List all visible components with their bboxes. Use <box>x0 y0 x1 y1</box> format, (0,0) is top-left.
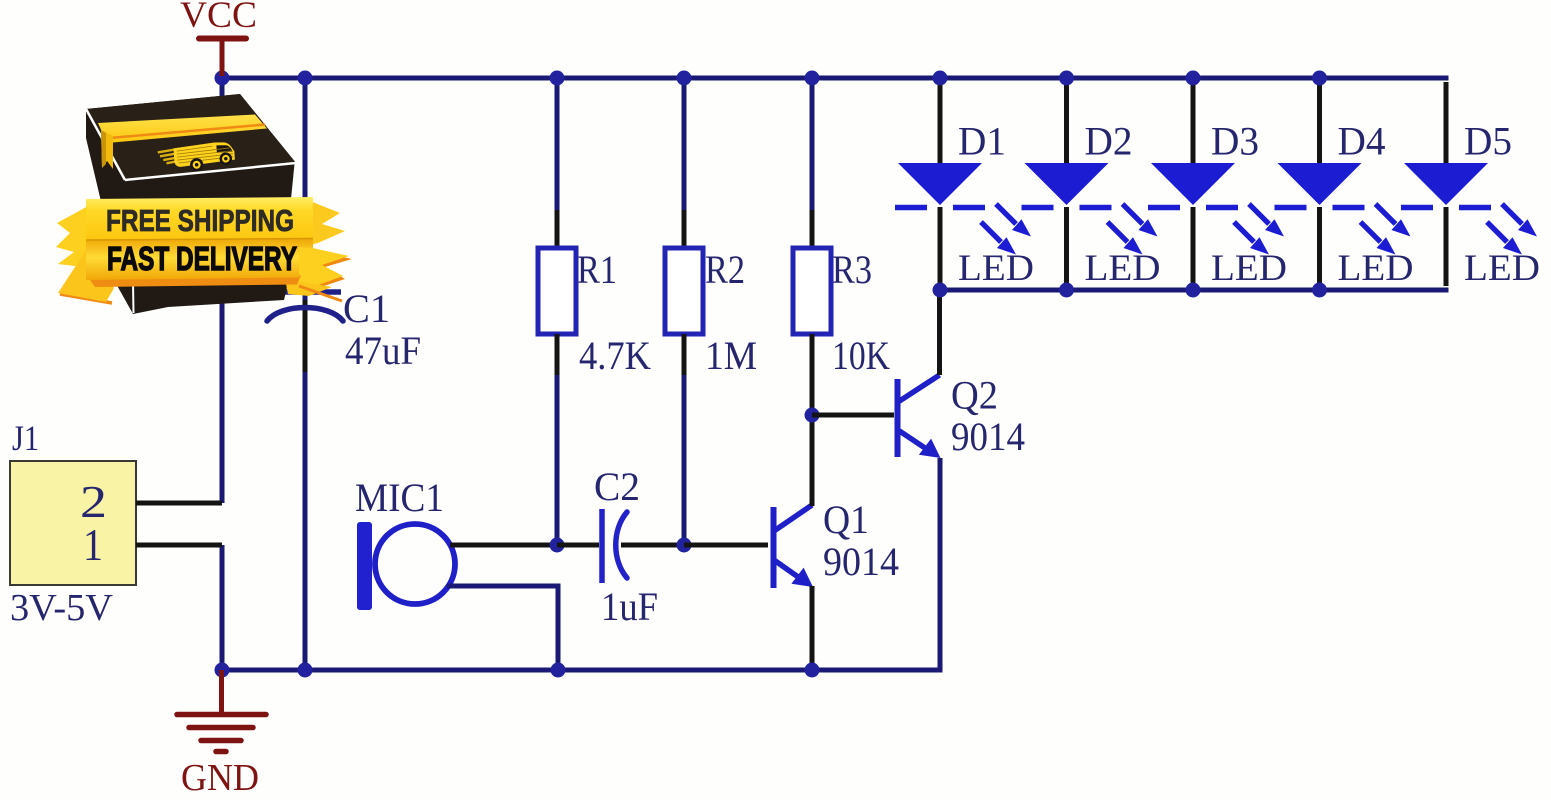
svg-text:1uF: 1uF <box>601 584 658 629</box>
wire: node C to Q2 base <box>812 413 894 418</box>
GND bar 1 <box>177 712 266 718</box>
wire: mic ground horizontal <box>447 584 558 589</box>
capacitor C2 curved plate <box>616 512 627 578</box>
wire: C2 to node B <box>621 543 684 548</box>
svg-text:3V-5V: 3V-5V <box>10 587 114 629</box>
VCC bar <box>199 36 246 42</box>
LED D4 cathode bar left <box>1275 205 1307 211</box>
junction dot R3 top <box>805 71 820 86</box>
transistor Q1 emitter arrowhead <box>791 568 813 587</box>
transistor Q2 collector diagonal <box>898 375 940 402</box>
LED D1 <box>895 82 1034 298</box>
LED D3 <box>1148 82 1287 298</box>
wire: R1 branch upper <box>555 78 560 210</box>
capacitor C1 top plate <box>283 289 341 295</box>
capacitor C2 left plate <box>599 509 605 583</box>
shipping badge: ribbon right upper spikes <box>310 201 345 245</box>
resistor R1 <box>538 248 576 334</box>
LED D1 cathode bar right <box>953 205 985 211</box>
power symbol VCC <box>180 0 257 76</box>
wire: D1 anode lead <box>938 82 943 163</box>
transistor Q2 emitter diagonal <box>898 430 928 450</box>
shipping badge: seam right edge <box>292 164 296 199</box>
wire: R3 top lead <box>810 210 815 248</box>
wire: R3 branch upper <box>810 78 815 210</box>
junction dot R2 top <box>677 71 692 86</box>
junction dot C1 branch top <box>298 71 313 86</box>
shipping badge: box silhouette <box>86 94 296 314</box>
svg-text:10K: 10K <box>832 333 890 378</box>
LED D4 triangle <box>1278 163 1362 205</box>
wire: R1 to mic node <box>555 375 560 545</box>
wire: R3 bottom lead <box>810 334 815 415</box>
shipping badge: ribbon right bottom fold <box>285 279 332 296</box>
svg-text:LED: LED <box>1085 248 1161 289</box>
svg-text:FREE SHIPPING: FREE SHIPPING <box>106 203 294 238</box>
wire: LED cathode rail <box>938 288 1449 293</box>
wire: mic ground vertical <box>556 584 561 671</box>
node B dot (R2/C2 junction) <box>677 538 692 553</box>
wire: Q2 emitter vertical to ground rail <box>938 458 943 673</box>
GND bar 3 <box>201 738 241 744</box>
wire: J1 pin 1 lead <box>136 543 222 548</box>
svg-text:47uF: 47uF <box>345 328 421 373</box>
LED D3 emission arrow 2 <box>1234 222 1254 242</box>
wire: D2 cathode lead <box>1064 207 1069 286</box>
wire: R2 to C2 node <box>682 375 687 545</box>
wire: D3 cathode lead <box>1191 207 1196 286</box>
LED D4 cathode bar right <box>1333 205 1365 211</box>
junction dot R1 top <box>550 71 565 86</box>
wire: R2 branch upper <box>682 78 687 210</box>
LED D3 triangle <box>1151 163 1235 205</box>
shipping badge: ribbon left lower fold orange edge <box>60 294 112 303</box>
node A dot (R1/C2/mic junction) <box>550 538 565 553</box>
LED D4 emission arrow 2 <box>1361 222 1381 242</box>
shipping badge: truck icon <box>157 141 235 174</box>
capacitor C1 curved plate <box>267 308 343 322</box>
svg-text:C1: C1 <box>343 286 390 331</box>
wire: R1 bottom lead <box>555 334 560 375</box>
svg-text:D3: D3 <box>1211 119 1259 164</box>
junction dot ground rail GND <box>215 663 230 678</box>
LED D1 cathode bar left <box>895 205 927 211</box>
svg-text:LED: LED <box>958 248 1034 289</box>
transistor Q1 emitter diagonal <box>774 560 801 579</box>
junction dot D2 top <box>1059 71 1074 86</box>
LED D4 <box>1275 82 1414 298</box>
shipping badge: ribbon band lower <box>86 239 313 280</box>
LED D5 triangle <box>1404 163 1488 205</box>
svg-text:Q1: Q1 <box>823 497 869 542</box>
shipping badge: ribbon bottom shadow <box>88 276 301 288</box>
shipping badge: seam front-top edge <box>125 163 296 180</box>
svg-text:4.7K: 4.7K <box>579 333 651 378</box>
svg-text:GND: GND <box>181 757 259 799</box>
svg-text:MIC1: MIC1 <box>355 475 444 520</box>
svg-text:9014: 9014 <box>951 414 1025 459</box>
wire: D1 cathode lead <box>938 207 943 286</box>
LED D1 emission arrow 2 <box>981 222 1001 242</box>
LED D2 emission arrow 1 <box>1123 204 1143 224</box>
LED D3 cathode bar left <box>1148 205 1180 211</box>
svg-text:LED: LED <box>1211 248 1287 289</box>
junction dot D1 cathode rail <box>933 283 948 298</box>
wire: D4 anode lead <box>1317 82 1322 163</box>
svg-text:R1: R1 <box>577 247 617 292</box>
wire: D2 anode lead <box>1064 82 1069 163</box>
wire: R1 top lead <box>555 210 560 248</box>
LED D1 emission arrow 1 <box>996 204 1016 224</box>
svg-text:VCC: VCC <box>180 0 257 36</box>
shipping badge: ribbon left tail spikes <box>56 205 92 268</box>
wire: node A to C2 <box>557 543 599 548</box>
GND stub <box>219 670 224 712</box>
svg-text:LED: LED <box>1338 248 1414 289</box>
svg-text:Q2: Q2 <box>951 373 998 418</box>
junction dot D4 cathode rail <box>1312 283 1327 298</box>
wire: bottom ground rail <box>220 668 943 673</box>
LED D2 <box>1022 82 1161 298</box>
svg-text:R2: R2 <box>705 247 745 292</box>
svg-text:1: 1 <box>83 519 103 570</box>
shipping badge: ribbon right bottom fold orange edge <box>299 286 342 301</box>
svg-text:D1: D1 <box>958 119 1006 164</box>
LED D4 emission arrow 1 <box>1376 204 1396 224</box>
svg-text:FAST DELIVERY: FAST DELIVERY <box>107 240 297 277</box>
wire: top VCC rail <box>222 76 1449 81</box>
wire: left vertical from VCC rail to J1 pin2 <box>220 78 225 503</box>
junction dot D2 cathode rail <box>1059 283 1074 298</box>
transistor Q1 collector diagonal <box>774 505 812 531</box>
LED D5 cathode bar left <box>1401 205 1433 211</box>
wire: D4 cathode lead <box>1317 207 1322 286</box>
transistor Q2 emitter arrowhead <box>919 439 941 458</box>
wire: Q1 emitter vertical to ground <box>810 586 815 670</box>
shipping badge: tape band on top face <box>98 115 267 144</box>
LED D3 emission arrow 1 <box>1249 204 1269 224</box>
svg-text:9014: 9014 <box>823 539 899 584</box>
shipping badge: ribbon crease <box>86 239 313 241</box>
connector J1 <box>10 418 222 629</box>
node C dot (R3/Q1 collector/Q2 base junction) <box>805 408 820 423</box>
svg-text:1M: 1M <box>705 333 757 378</box>
shipping badge: seam bottom-left edge <box>132 282 135 313</box>
svg-text:C2: C2 <box>594 464 640 509</box>
LED D5 emission arrow 1 <box>1502 204 1522 224</box>
LED D2 cathode bar left <box>1022 205 1054 211</box>
LED D2 emission arrow 2 <box>1108 222 1128 242</box>
junction dot ground rail mic <box>551 663 566 678</box>
wire: D5 cathode lead <box>1444 207 1449 286</box>
LED D3 cathode bar right <box>1206 205 1238 211</box>
microphone MIC1 element bar <box>357 522 372 610</box>
svg-text:D5: D5 <box>1464 119 1512 164</box>
shipping badge: ribbon left lower fold <box>58 244 114 302</box>
wire: mic output to node A <box>450 543 557 548</box>
LED D2 triangle <box>1025 163 1109 205</box>
shipping badge: tape orange stripe <box>104 125 265 139</box>
wire: C1 branch vertical upper <box>303 78 308 300</box>
wire: C1 lead black segment <box>303 300 308 372</box>
wire: left vertical from J1 pin1 to ground rail <box>220 545 225 670</box>
ground symbol GND <box>177 670 266 799</box>
LED D1 triangle <box>898 163 982 205</box>
svg-text:J1: J1 <box>12 418 39 458</box>
shipping badge: seam top-left edge <box>86 109 125 180</box>
wire: C1 branch vertical lower to ground rail <box>303 372 308 670</box>
shipping badge: ribbon right lower spikes <box>297 245 349 290</box>
junction dot D3 cathode rail <box>1186 283 1201 298</box>
wire: Q1 collector vertical <box>810 415 815 506</box>
microphone MIC1 body <box>375 524 455 604</box>
LED D5 emission arrow 2 <box>1487 222 1507 242</box>
shipping badge: ribbon band upper <box>86 197 313 241</box>
LED D5 cathode bar right <box>1459 205 1491 211</box>
svg-text:D2: D2 <box>1085 119 1133 164</box>
junction dot D4 top <box>1312 71 1327 86</box>
junction dot D3 top <box>1186 71 1201 86</box>
svg-text:LED: LED <box>1464 248 1540 289</box>
wire: node B to Q1 base <box>684 543 768 548</box>
junction dot VCC/rail <box>215 71 230 86</box>
LED D5 <box>1401 82 1540 289</box>
J1 body <box>10 461 136 585</box>
GND bar 2 <box>189 725 253 731</box>
transistor Q1 base bar <box>771 507 777 588</box>
shipping badge: tape flap <box>101 130 113 169</box>
junction dot ground rail Q1 emitter <box>805 663 820 678</box>
resistor R2 <box>665 248 703 334</box>
wire: R2 top lead <box>682 210 687 248</box>
svg-text:R3: R3 <box>832 247 872 292</box>
VCC stub <box>220 38 225 76</box>
wire: D5 anode lead <box>1444 82 1449 163</box>
wire: J1 pin 2 lead <box>136 501 222 506</box>
shipping badge: ribbon right lower orange backing <box>297 247 352 293</box>
LED D2 cathode bar right <box>1080 205 1112 211</box>
shipping badge: tape flap shadow <box>101 130 106 168</box>
resistor R3 <box>793 248 831 334</box>
junction dot D1 top <box>933 71 948 86</box>
transistor Q2 base bar <box>895 379 901 457</box>
wire: R2 bottom lead <box>682 334 687 375</box>
junction dot ground rail C1 <box>298 663 313 678</box>
GND bar 4 <box>216 749 226 755</box>
svg-text:D4: D4 <box>1338 119 1386 164</box>
wire: D3 anode lead <box>1191 82 1196 163</box>
shipping badge: box top face <box>86 94 296 180</box>
wire: Q2 collector vertical to LED rail <box>937 290 942 375</box>
